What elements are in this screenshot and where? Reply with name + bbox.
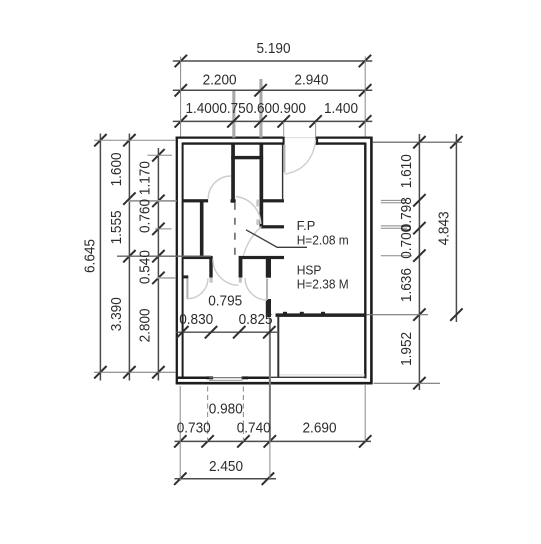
door C swing arc <box>245 278 267 300</box>
door D3 frame stub left <box>210 278 213 283</box>
wall W1 gray projection above top wall <box>232 90 235 138</box>
right outer wall inner line <box>364 143 366 379</box>
tick C4 <box>152 250 164 262</box>
svg-text:3.390: 3.390 <box>109 297 125 331</box>
HSP wall notch 2 <box>300 312 304 314</box>
tick C1 <box>152 149 164 161</box>
svg-text:0.825: 0.825 <box>239 312 273 328</box>
bottom window glazing mid line <box>209 379 243 381</box>
svg-text:F.P: F.P <box>297 219 316 233</box>
outer top wall inner line (left of door) <box>183 142 284 144</box>
svg-text:1.170: 1.170 <box>138 161 154 195</box>
dim line 0.830/0.825 interior <box>176 331 277 333</box>
tick t3b <box>227 115 239 127</box>
tick D1f <box>413 377 425 389</box>
dim line 1.170/0.760/0.540/2.800 <box>157 148 159 381</box>
outer top wall outer line (right of door) <box>316 136 372 138</box>
tick D2b <box>450 308 462 320</box>
extension line top-left <box>180 57 182 137</box>
bottom wall inner line left of window <box>176 377 209 380</box>
tick b2b <box>201 435 213 447</box>
svg-text:2.690: 2.690 <box>303 420 337 436</box>
right ext line y315 <box>367 314 429 316</box>
wall Wf upper segment <box>266 259 271 278</box>
tick t3c <box>254 115 266 127</box>
wall H1 (top-left room bottom, left part) <box>183 199 209 202</box>
tick 6.645 bottom <box>94 366 106 378</box>
svg-text:0.830: 0.830 <box>179 312 213 328</box>
tick t3e <box>309 115 321 127</box>
jamb Wc <box>209 259 212 278</box>
tick 2.200 left <box>175 84 187 96</box>
HSP room bottom wall <box>276 313 366 317</box>
tick B2 <box>123 192 135 204</box>
tick D2a <box>450 136 462 148</box>
svg-text:H=2.08 m: H=2.08 m <box>297 233 349 247</box>
tick B4 <box>123 366 135 378</box>
tick b3a <box>174 473 186 485</box>
extension line top-right <box>364 57 366 137</box>
bottom ext right <box>364 385 366 441</box>
door A left stub on outer wall <box>183 275 189 278</box>
svg-text:2.200: 2.200 <box>203 72 237 88</box>
porch left wall line <box>277 317 279 377</box>
interior wall W2 (top center-right) <box>260 145 264 229</box>
top entry door swing arc <box>285 140 316 175</box>
tick C5 <box>152 272 164 284</box>
svg-text:H=2.38 M: H=2.38 M <box>297 278 349 292</box>
svg-text:4.843: 4.843 <box>437 211 453 245</box>
dim line 0.730/0.740/2.690 <box>175 440 372 442</box>
wall Wb (lower-left horizontal) <box>183 256 213 259</box>
tick 5.190 right <box>359 55 371 67</box>
left outer wall outer line <box>176 137 178 384</box>
svg-text:1.4000.750.600.900: 1.4000.750.600.900 <box>186 101 306 117</box>
tick t3a <box>175 115 187 127</box>
door D3 frame stub right <box>239 278 242 283</box>
porch bottom inner thin line <box>270 376 365 378</box>
tick i4 <box>263 326 275 338</box>
HSP wall notch 1 <box>283 312 287 314</box>
svg-text:2.800: 2.800 <box>138 308 154 342</box>
svg-text:1.610: 1.610 <box>399 154 415 188</box>
thin partition line right of shower <box>282 145 284 202</box>
tick C6 <box>152 366 164 378</box>
tick b2e <box>359 435 371 447</box>
shaft bar P0 between W1 and W2 <box>231 156 263 159</box>
svg-text:2.940: 2.940 <box>294 72 328 88</box>
tick C3 <box>152 223 164 235</box>
svg-text:0.980: 0.980 <box>209 402 243 418</box>
left ext line y155 <box>148 154 173 156</box>
dim line 4.843 <box>455 134 457 322</box>
jamb Wd <box>239 259 243 278</box>
tick i1 <box>176 326 188 338</box>
wall W1 bottom cap <box>231 199 236 202</box>
right ext line y142 <box>373 141 462 143</box>
svg-text:5.190: 5.190 <box>257 41 291 57</box>
tick 2.940 right <box>359 84 371 96</box>
right ext line y256 <box>381 255 412 257</box>
dim line 1.600/1.555/3.390 <box>128 134 130 381</box>
dim line 1.400 chain <box>173 120 372 122</box>
tick b3b <box>262 473 274 485</box>
tick 2.200/2.940 <box>254 84 266 96</box>
niche bar P2 <box>261 225 284 228</box>
hall upper door swing arc <box>236 197 261 225</box>
bottom window sill inner thin line <box>209 377 243 379</box>
top door left jamb cap <box>283 137 285 145</box>
HSP wall notch 3 <box>321 312 325 314</box>
door C leaf <box>266 279 268 301</box>
tick D1b <box>413 194 425 206</box>
porch faint step line <box>278 374 365 376</box>
left ext line y256 <box>117 255 211 257</box>
wall We (hall bottom horizontal) <box>239 256 284 259</box>
dim line 2.450 <box>175 478 277 480</box>
top door threshold light line <box>284 137 317 139</box>
tick b2d <box>264 435 276 447</box>
left ext line y278 <box>157 277 176 279</box>
svg-text:0.540: 0.540 <box>138 250 154 284</box>
svg-text:1.400: 1.400 <box>324 101 358 117</box>
tick D1d <box>413 249 425 261</box>
outer top wall outer line (left of door) <box>176 136 284 138</box>
bottom ext left <box>179 386 181 481</box>
tick D1e <box>413 308 425 320</box>
svg-text:0.760: 0.760 <box>138 199 154 233</box>
svg-text:0.700: 0.700 <box>399 225 415 259</box>
dim line 6.645 <box>99 134 101 381</box>
door A swing arc <box>187 278 208 299</box>
door D3 swing arc <box>213 259 239 285</box>
bottom ext wall corner x270 <box>269 318 271 442</box>
right ext line y200 pair <box>381 199 407 201</box>
tick t3f <box>359 115 371 127</box>
right ext line y226 pair <box>381 225 407 227</box>
tick b2c <box>237 435 249 447</box>
bottom window right jamb <box>242 376 248 379</box>
wall W2 gray projection above top wall <box>259 79 262 138</box>
tick C2 <box>152 195 164 207</box>
wall Wa (vertical, left rooms divider) <box>200 202 204 256</box>
dim line 5.190 <box>173 60 372 62</box>
right outer wall outer line <box>370 137 373 384</box>
extension line door jamb right <box>315 122 317 140</box>
door A leaf <box>186 279 188 299</box>
tick B3 <box>123 250 135 262</box>
bottom wall outer line <box>176 382 373 385</box>
left ext line y372 <box>94 371 176 373</box>
extension line door jamb left <box>283 122 285 137</box>
niche door frame stub lower <box>256 219 258 225</box>
svg-text:2.450: 2.450 <box>209 459 243 475</box>
svg-text:1.555: 1.555 <box>109 210 125 244</box>
F.P leader line <box>246 230 307 248</box>
tick B1 <box>123 134 135 146</box>
tick t3d <box>278 115 290 127</box>
niche bar P1 <box>263 199 284 202</box>
bottom window left jamb <box>206 376 213 379</box>
hall lower door swing curve <box>243 227 261 256</box>
left ext line y201 <box>129 200 177 202</box>
svg-text:1.952: 1.952 <box>399 332 415 366</box>
top-left room door swing arc <box>208 176 231 199</box>
outer top wall inner line (right of door) <box>316 142 365 144</box>
svg-text:HSP: HSP <box>297 264 322 278</box>
left outer wall inner line <box>182 143 184 378</box>
right ext line y383 <box>374 382 441 384</box>
F.P dashed beam line <box>234 203 236 258</box>
bottom ext dashed window right <box>242 387 244 442</box>
dim line 2.200/2.940 <box>173 89 372 91</box>
wall Wf lower segment <box>266 299 271 317</box>
tick i3 <box>233 326 245 338</box>
svg-text:0.795: 0.795 <box>208 294 242 310</box>
niche door frame stub upper <box>256 200 258 207</box>
svg-text:1.600: 1.600 <box>109 152 125 186</box>
left ext line y229 <box>155 228 172 230</box>
top entry door leaf <box>283 145 285 173</box>
dim line right chain <box>418 134 420 390</box>
svg-text:1.636: 1.636 <box>399 268 415 302</box>
top door right jamb cap <box>315 137 318 145</box>
tick 6.645 top <box>94 134 106 146</box>
svg-text:0.730: 0.730 <box>177 420 211 436</box>
svg-text:6.645: 6.645 <box>82 239 98 273</box>
tick D1a <box>413 136 425 148</box>
tick i2 <box>205 326 217 338</box>
left ext line y140 <box>94 139 176 141</box>
tick b2a <box>174 435 186 447</box>
svg-text:0.740: 0.740 <box>237 420 271 436</box>
interior wall W1 (top center-left) <box>231 145 235 203</box>
bottom ext dashed window left <box>207 387 209 442</box>
tick 5.190 left <box>175 55 187 67</box>
tick D1c <box>413 222 425 234</box>
bottom wall inner line right of window <box>243 377 271 380</box>
